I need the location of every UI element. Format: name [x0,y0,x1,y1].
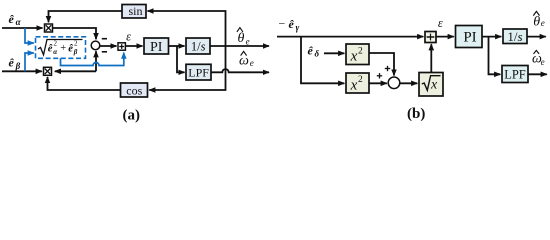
svg-text:+: + [60,43,66,54]
svg-text:α: α [16,17,22,27]
svg-text:2: 2 [54,40,58,48]
svg-text:2: 2 [74,40,78,48]
svg-text:α: α [53,48,57,56]
svg-text:ε: ε [126,29,131,43]
svg-text:1/s: 1/s [191,39,206,53]
svg-text:ê: ê [68,44,73,55]
svg-text:γ: γ [296,23,300,33]
svg-text:sin: sin [128,4,142,18]
svg-text:LPF: LPF [504,67,526,81]
svg-text:ê: ê [308,44,314,58]
svg-text:PI: PI [463,30,476,46]
svg-text:−: − [279,17,286,31]
svg-text:ω: ω [239,53,249,68]
svg-text:β: β [73,48,78,56]
svg-text:e: e [250,58,254,68]
svg-text:PI: PI [150,40,163,55]
svg-text:θ: θ [533,14,540,29]
svg-text:ê: ê [9,56,15,70]
svg-text:(a): (a) [123,107,141,123]
svg-text:x: x [350,49,358,65]
svg-text:LPF: LPF [188,65,209,79]
svg-text:θ: θ [238,31,245,46]
svg-text:e: e [246,36,250,46]
svg-text:ε: ε [438,16,443,30]
svg-text:x: x [430,77,438,92]
svg-text:(b): (b) [407,106,425,122]
svg-text:ê: ê [289,17,295,31]
svg-text:δ: δ [315,49,320,59]
svg-text:2: 2 [358,46,363,56]
svg-text:ê: ê [9,12,15,26]
svg-text:2: 2 [358,75,363,85]
svg-text:β: β [15,61,21,71]
svg-text:1/s: 1/s [507,29,522,44]
svg-text:cos: cos [126,84,142,98]
svg-text:e: e [541,18,545,28]
svg-text:ê: ê [48,44,53,55]
svg-text:e: e [541,57,545,67]
svg-text:x: x [350,77,358,93]
